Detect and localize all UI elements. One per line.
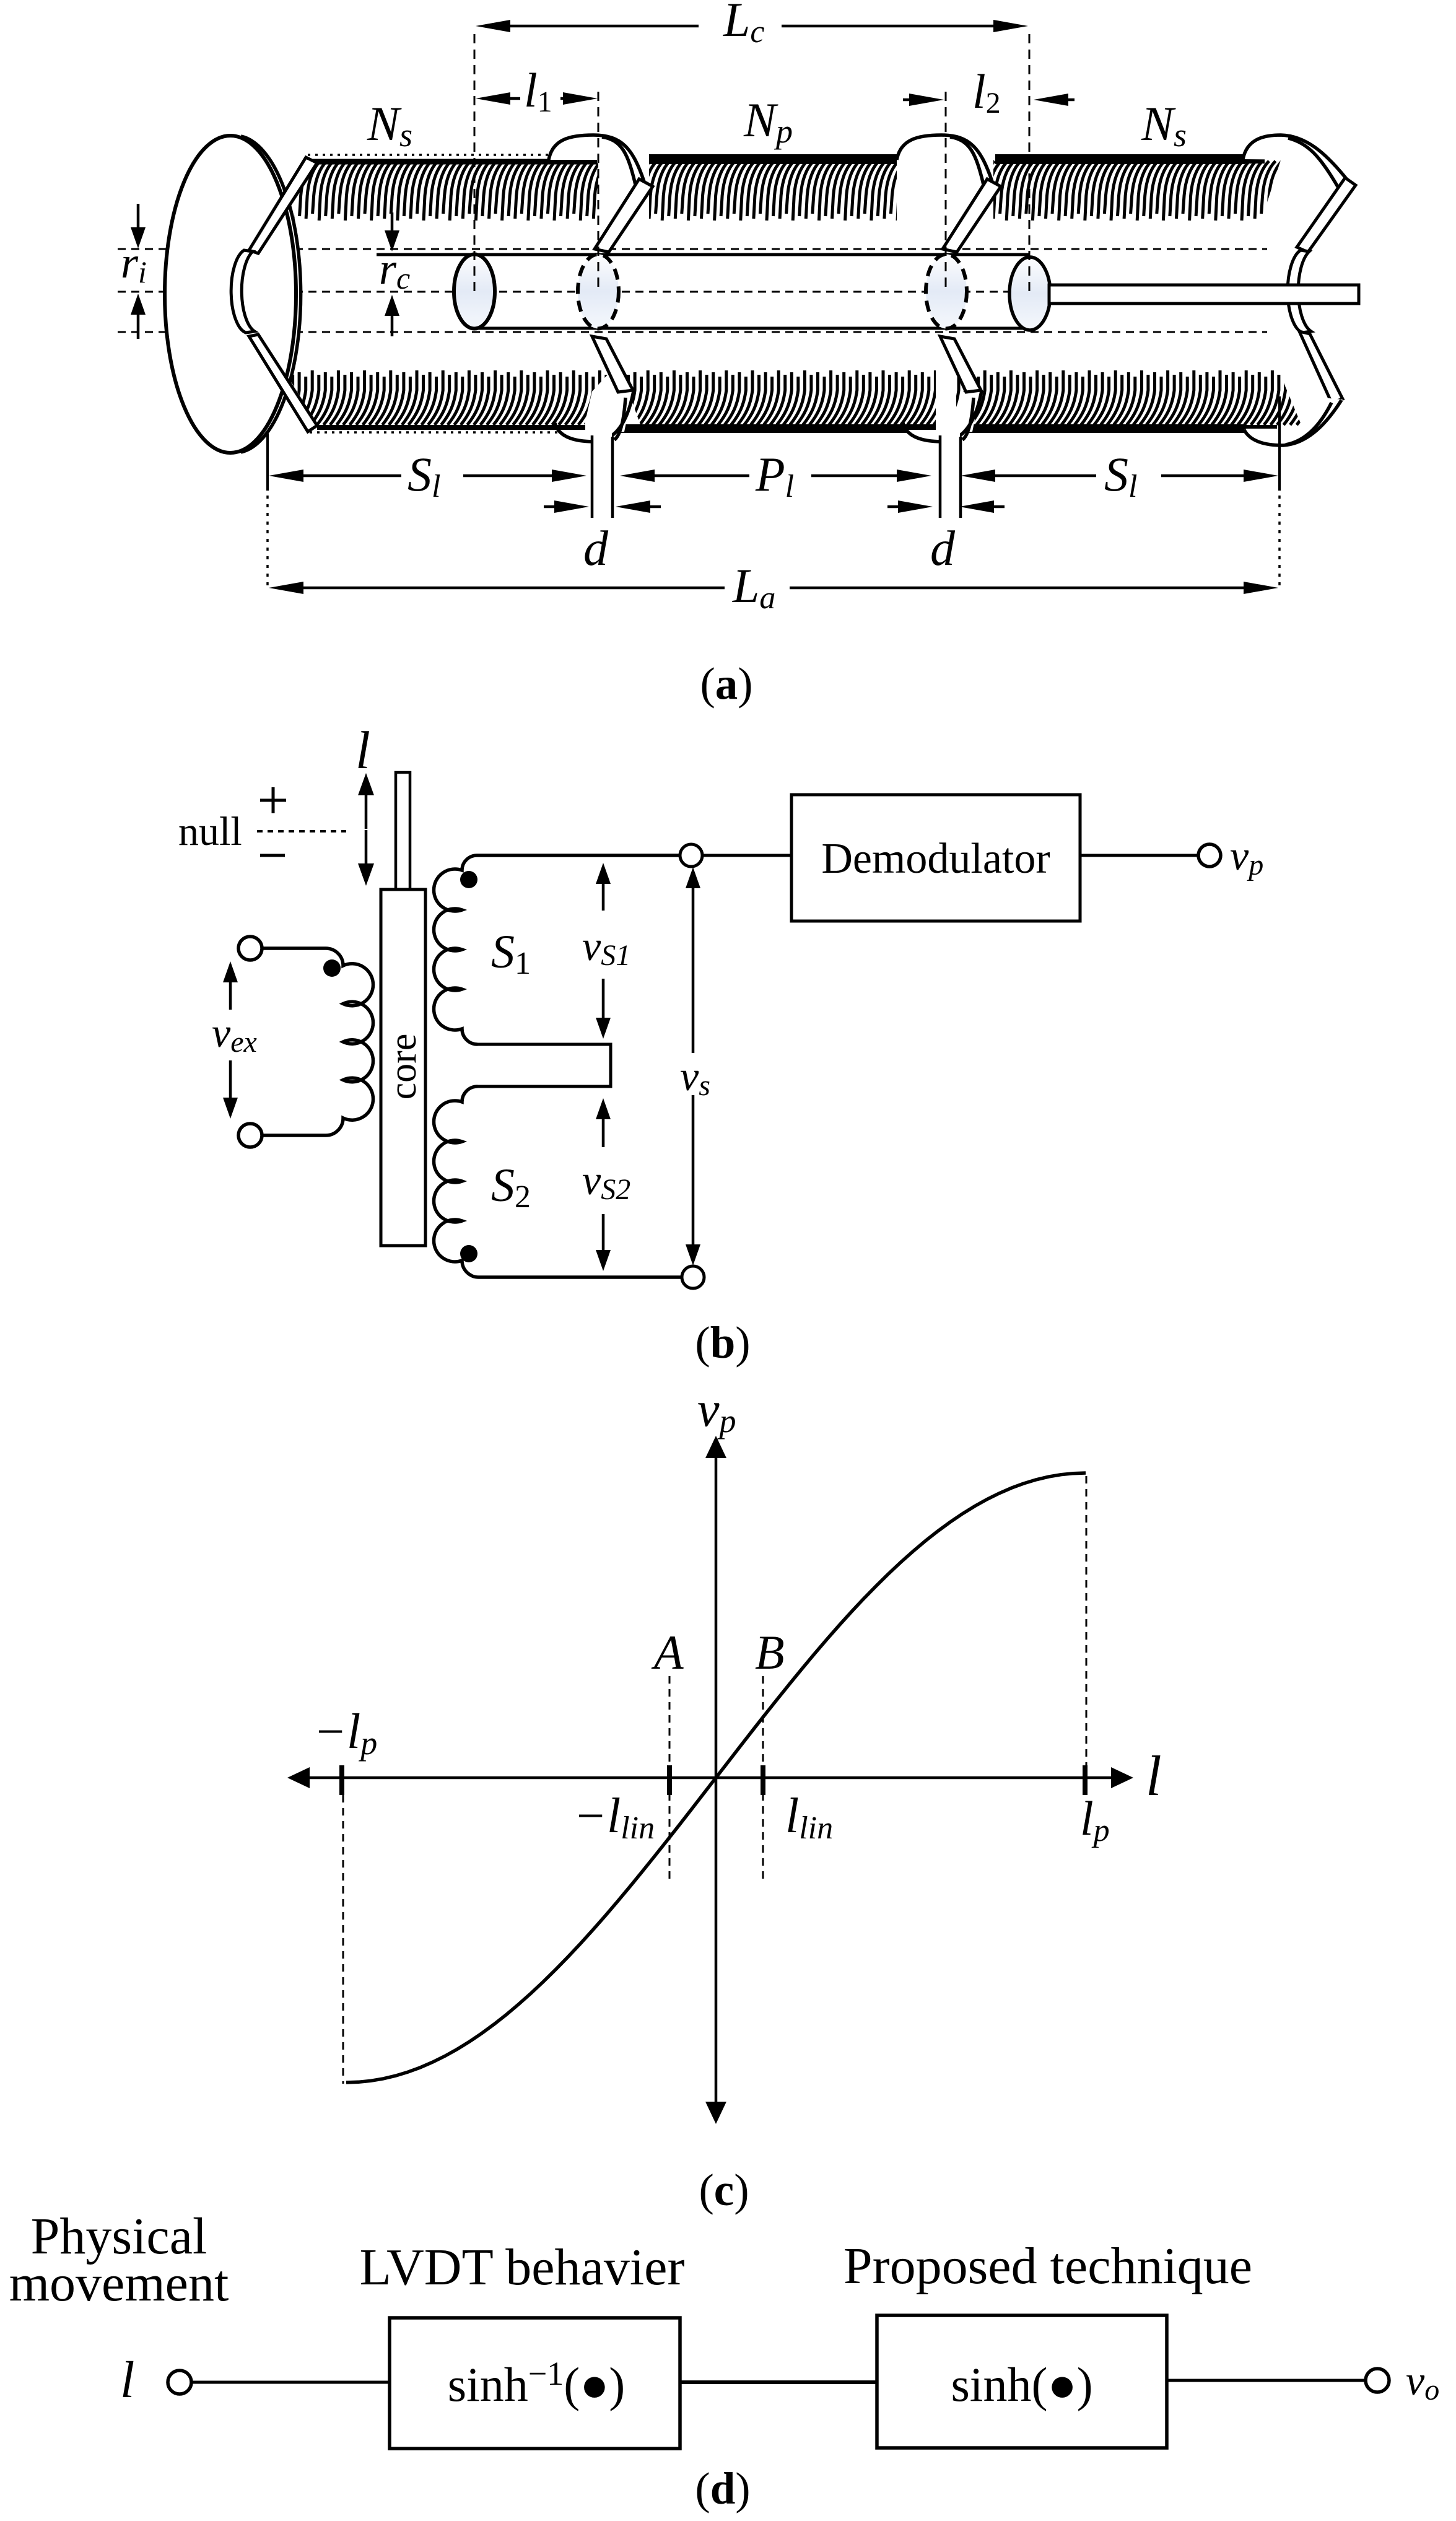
svg-text:core: core <box>382 1034 424 1100</box>
flange at x=1528: bottom gap edge lines <box>941 434 960 518</box>
core extension rod <box>1049 285 1359 304</box>
tick lp <box>1083 1765 1088 1795</box>
dimension ri arrows <box>137 204 140 227</box>
secondary winding Ns right: hatch band top <box>980 161 1295 221</box>
svg-text:null: null <box>178 809 242 854</box>
terminal vo <box>1366 2369 1389 2392</box>
S2 phase dot <box>460 1245 477 1262</box>
wire node to demodulator <box>702 854 791 857</box>
tick llin <box>761 1765 765 1795</box>
displacement double arrow <box>365 795 368 829</box>
svg-text:(b): (b) <box>695 1317 750 1368</box>
flange at x=1528: lower cut slab <box>940 336 981 392</box>
primary phase dot <box>323 959 341 977</box>
extension line right x=2066 <box>1278 396 1281 491</box>
flange at x=966: upper cut slab <box>595 179 653 252</box>
left end flange: rim arc <box>241 136 301 452</box>
secondary winding Ns right: hatch band bottom <box>944 370 1318 425</box>
sinh-inverse shaped response curve <box>346 1473 1086 2082</box>
series step wire S1-S2 <box>476 1044 611 1086</box>
core hidden ellipse at flange 2 (dashed) <box>926 255 967 329</box>
null minus sign <box>260 854 285 857</box>
dimension l2 arrows <box>903 98 909 102</box>
extension dashed line at flange1 x=966 <box>598 92 599 291</box>
node bottom <box>682 1266 704 1288</box>
vex double arrow <box>229 982 232 1010</box>
secondary winding S1 <box>434 855 680 1044</box>
svg-text:(a): (a) <box>700 658 752 709</box>
vs double arrow <box>692 888 695 1053</box>
svg-text:(c): (c) <box>699 2165 749 2215</box>
right end flange: bottom hump <box>1244 396 1341 445</box>
coil bottom edge left (hidden, dotted) + merged turn bottoms <box>310 431 588 434</box>
right end flange: lower cut slab <box>1299 331 1343 403</box>
wire l to LVDT block <box>192 2381 390 2384</box>
extension dashed line at flange2 x=1527 <box>945 92 947 291</box>
svg-text:sinh(●): sinh(●) <box>951 2357 1092 2411</box>
svg-text:d: d <box>930 522 956 576</box>
extension dashed line at core right end x=1662 <box>1029 34 1031 291</box>
coil bottom edge right (solid) <box>956 424 1246 433</box>
svg-text:l: l <box>120 2351 134 2409</box>
dimension d second (arrows outside) <box>887 505 898 509</box>
coil bottom edge Pl (solid) <box>612 424 936 433</box>
extension line Sl left x=432 <box>266 434 269 491</box>
dashed line at B <box>762 1676 764 1882</box>
left end flange: disc ellipse <box>165 136 296 453</box>
core extension rod (over notch) <box>1049 285 1359 304</box>
vs2 double arrow <box>602 1119 605 1147</box>
dimension Lc arrow left part <box>510 25 699 28</box>
core hidden ellipse at flange 1 (dashed) <box>578 255 619 329</box>
core right end ellipse <box>1009 257 1050 330</box>
dashed drop line at -lp <box>342 1795 344 2084</box>
secondary winding Ns left: hatch band bottom <box>271 370 619 425</box>
terminal vex top <box>238 937 262 960</box>
flange at x=966: top hump <box>549 135 644 188</box>
svg-text:(d): (d) <box>695 2463 750 2514</box>
dashed line at A <box>669 1676 671 1882</box>
svg-text:l: l <box>355 720 370 780</box>
terminal vex bottom <box>238 1124 262 1147</box>
tick -lp <box>339 1765 344 1795</box>
coil top edge left (hidden, dotted) + merged turn tops <box>308 154 598 156</box>
null dashed level line <box>257 830 346 832</box>
extension dashed line at core left end x=766 <box>474 34 476 291</box>
null plus sign <box>260 787 286 813</box>
terminal l <box>168 2370 191 2394</box>
flange at x=966: lower cut slab <box>592 336 633 392</box>
right end flange: top hump <box>1243 135 1348 187</box>
wire between blocks <box>680 2380 877 2384</box>
core tube top edge <box>377 253 1030 256</box>
svg-text:B: B <box>755 1625 785 1679</box>
secondary winding Ns left: hatch band top <box>293 161 608 221</box>
svg-text:d: d <box>583 522 609 576</box>
guide line: bobbin inner radius top (dashed) <box>118 248 1267 250</box>
core left end ellipse <box>454 255 495 329</box>
primary winding Np: hatch band top <box>636 161 912 221</box>
right end flange: upper cut slab <box>1297 178 1356 252</box>
S1 phase dot <box>460 871 477 888</box>
flange at x=1528: bottom hump <box>903 390 982 442</box>
dimension Lc arrow right part <box>782 25 993 28</box>
flange at x=1528: top hump <box>897 135 992 188</box>
dimension La arrows <box>303 587 725 590</box>
terminal vp <box>1198 844 1221 867</box>
dimension Sl left arrows <box>303 474 401 478</box>
left end flange: lower cut edge <box>249 334 317 432</box>
x axis l <box>308 1776 1112 1780</box>
guide line: center axis (dashed) <box>118 291 1294 293</box>
svg-text:l: l <box>1146 1744 1162 1807</box>
wire demodulator to vp <box>1080 854 1198 857</box>
flange at x=1528: upper cut slab <box>943 179 1001 252</box>
block sinh <box>877 2315 1167 2448</box>
dimension Pl arrows <box>655 474 749 478</box>
dashed drop line at lp <box>1086 1476 1088 1792</box>
flange at x=966: bottom hump <box>555 390 634 442</box>
node top <box>680 844 702 867</box>
dimension Sl right arrows <box>995 474 1096 478</box>
primary winding Np: hatch band bottom <box>607 370 949 425</box>
secondary winding S2 <box>434 1086 682 1277</box>
svg-text:Demodulator: Demodulator <box>821 835 1050 883</box>
right end flange: gap wedge below slab <box>1307 397 1343 432</box>
svg-text:movement: movement <box>9 2255 229 2312</box>
core stem rod <box>396 772 410 889</box>
dimension d first (arrows outside) <box>544 505 554 509</box>
svg-text:Proposed technique: Proposed technique <box>844 2237 1252 2295</box>
left end flange: bore notch <box>231 250 255 333</box>
flange at x=966: gap wedge below slab <box>601 390 633 432</box>
core tube bottom edge <box>474 327 1030 330</box>
wire sinh block to vo <box>1167 2379 1365 2382</box>
svg-text:A: A <box>651 1625 684 1679</box>
block sinh-1 <box>390 2318 680 2449</box>
vs1 double arrow <box>602 884 605 911</box>
right end flange: bore notch <box>1288 250 1311 333</box>
primary winding coil <box>263 948 373 1135</box>
demodulator block <box>791 795 1080 921</box>
tick -llin <box>667 1765 672 1795</box>
flange at x=966: bottom gap edge lines <box>593 434 612 518</box>
left end flange: upper cut edge <box>249 157 317 253</box>
dimension l1 arrows <box>510 97 520 100</box>
y axis vp <box>715 1457 718 2104</box>
core bar <box>381 889 425 1246</box>
dimension rc arrows <box>391 212 394 230</box>
guide line: bobbin inner radius bottom (dashed) <box>118 331 1267 333</box>
svg-text:LVDT behavier: LVDT behavier <box>360 2239 685 2296</box>
coil top edge Np (solid) <box>649 154 897 164</box>
flange at x=1528: gap wedge below slab <box>949 390 981 432</box>
coil top edge Ns right (solid) <box>995 154 1245 164</box>
